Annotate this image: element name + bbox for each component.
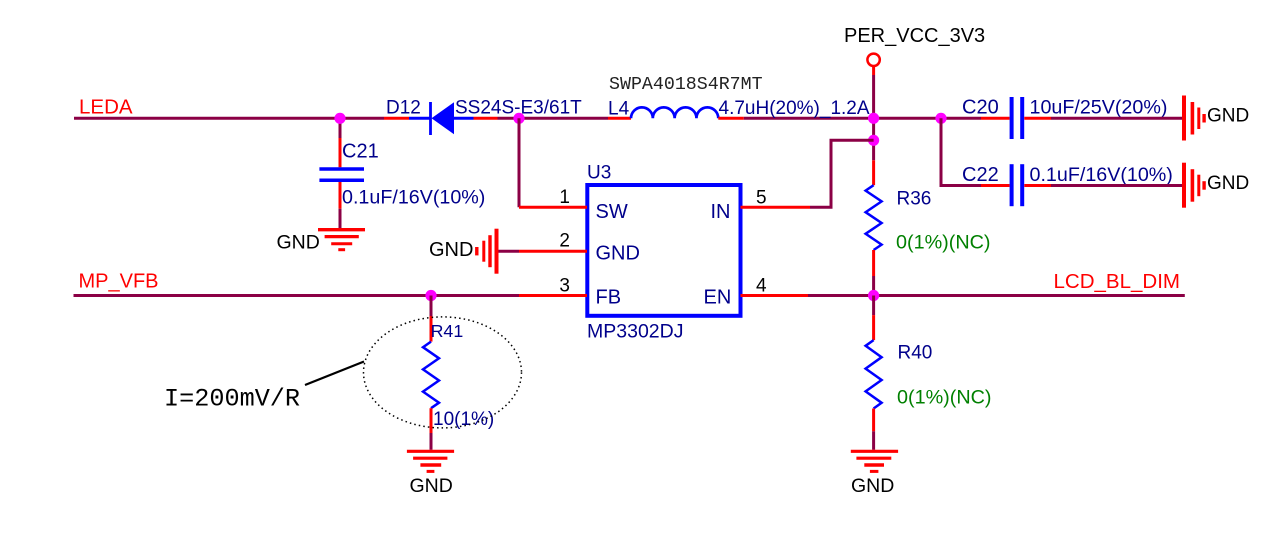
wire: power symbol down through main row to R36 bbox=[872, 75, 875, 160]
svg-text:GND: GND bbox=[429, 239, 473, 261]
inductor L4 bbox=[608, 107, 744, 118]
ref label R36 bbox=[897, 189, 932, 210]
value label 4.7uH(20%)_1.2A bbox=[719, 98, 870, 119]
svg-text:4: 4 bbox=[756, 276, 767, 297]
svg-text:U3: U3 bbox=[587, 163, 611, 184]
annotation ellipse around R41 bbox=[364, 317, 522, 428]
wire: EN row to LCD_BL_DIM bbox=[808, 294, 1185, 297]
svg-text:L4: L4 bbox=[608, 99, 630, 120]
svg-text:FB: FB bbox=[596, 287, 622, 309]
pin name IN bbox=[711, 201, 731, 223]
ground symbol at pin 2 bbox=[477, 229, 497, 274]
ref label C22 bbox=[962, 164, 999, 186]
pin name SW bbox=[596, 201, 628, 223]
pin name EN bbox=[704, 287, 732, 309]
annotation pointer line bbox=[305, 362, 364, 386]
diode D12 bbox=[384, 102, 498, 135]
value label 10(1%) for R41 bbox=[433, 409, 494, 430]
svg-text:GND: GND bbox=[851, 475, 894, 497]
value label 0(1%)(NC) for R36 bbox=[896, 232, 991, 254]
net label LCD_BL_DIM bbox=[1054, 270, 1180, 293]
svg-text:2: 2 bbox=[559, 231, 570, 252]
pin 3 FB stub bbox=[519, 294, 587, 297]
svg-text:R40: R40 bbox=[898, 343, 933, 364]
ref label D12 bbox=[386, 98, 421, 119]
svg-text:C22: C22 bbox=[962, 164, 999, 186]
svg-text:I=200mV/R: I=200mV/R bbox=[164, 385, 300, 414]
value label SS24S-E3/61T bbox=[455, 98, 582, 119]
svg-text:1: 1 bbox=[559, 187, 570, 208]
value label 0(1%)(NC) for R40 bbox=[897, 387, 992, 409]
pin 1 SW stub bbox=[519, 206, 587, 209]
ref label L4 bbox=[608, 99, 630, 120]
power symbol PER_VCC_3V3 bbox=[867, 54, 879, 75]
resistor R41 bbox=[423, 296, 439, 434]
wire: IN pin branch (corner) bbox=[810, 140, 874, 207]
wire: vertical from junction down to SW pin row bbox=[518, 118, 521, 207]
svg-text:LCD_BL_DIM: LCD_BL_DIM bbox=[1054, 270, 1180, 293]
svg-text:C21: C21 bbox=[342, 141, 379, 163]
pin number 2 bbox=[559, 231, 570, 252]
pin number 1 bbox=[559, 187, 570, 208]
svg-text:MP3302DJ: MP3302DJ bbox=[587, 321, 683, 343]
wire: L4 to C20 bbox=[744, 117, 981, 120]
wire: vertical from LEDA junction down to C21 bbox=[339, 118, 342, 138]
pin number 3 bbox=[559, 276, 570, 297]
value label 0.1uF/16V(10%) for C21 bbox=[342, 187, 485, 209]
label GND for C21 ground bbox=[277, 231, 320, 253]
value label 10uF/25V(20%) bbox=[1030, 97, 1168, 119]
svg-text:SW: SW bbox=[596, 201, 628, 223]
ref label R40 bbox=[898, 343, 933, 364]
svg-text:D12: D12 bbox=[386, 98, 421, 119]
label GND for R41 ground bbox=[410, 475, 453, 497]
ground symbol right of C20 bbox=[1184, 96, 1204, 141]
svg-text:GND: GND bbox=[1207, 173, 1249, 194]
svg-text:0(1%)(NC): 0(1%)(NC) bbox=[896, 232, 991, 254]
label GND at pin 2 ground bbox=[429, 239, 473, 261]
node junction at LEDA/C21 bbox=[334, 113, 345, 124]
wire: R40 to ground bbox=[872, 431, 875, 450]
value label MP3302DJ bbox=[587, 321, 683, 343]
svg-text:GND: GND bbox=[596, 243, 640, 265]
svg-text:0.1uF/16V(10%): 0.1uF/16V(10%) bbox=[1030, 164, 1173, 186]
svg-text:3: 3 bbox=[559, 276, 570, 297]
wire: ground symbol to pin 2 bbox=[499, 250, 520, 253]
svg-text:GND: GND bbox=[1207, 106, 1249, 127]
pin name FB bbox=[596, 287, 622, 309]
pin number 4 bbox=[756, 276, 767, 297]
net label LEDA bbox=[79, 95, 133, 118]
svg-text:5: 5 bbox=[756, 188, 767, 209]
svg-text:EN: EN bbox=[704, 287, 732, 309]
ground symbol below R41 bbox=[407, 451, 454, 471]
svg-text:GND: GND bbox=[410, 475, 453, 497]
svg-text:R41: R41 bbox=[431, 321, 464, 341]
label GND for C22 ground bbox=[1207, 173, 1249, 194]
wire: MP_VFB row to FB pin bbox=[74, 294, 520, 297]
capacitor C22 bbox=[981, 164, 1051, 206]
svg-text:IN: IN bbox=[711, 201, 731, 223]
wire: C20 to ground bbox=[1051, 117, 1182, 120]
wire: LEDA net horizontal top-left bbox=[74, 117, 384, 120]
svg-text:4.7uH(20%)_1.2A: 4.7uH(20%)_1.2A bbox=[719, 98, 870, 119]
label GND for R40 ground bbox=[851, 475, 894, 497]
node junction C22 branch bbox=[935, 113, 946, 124]
wire: C22 branch vertical and horizontal bbox=[941, 118, 981, 185]
value label 0.1uF/16V(10%) for C22 bbox=[1030, 164, 1173, 186]
capacitor C20 bbox=[981, 97, 1051, 139]
annotation text I=200mV/R bbox=[164, 385, 300, 414]
svg-text:10uF/25V(20%): 10uF/25V(20%) bbox=[1030, 97, 1168, 119]
svg-text:C20: C20 bbox=[962, 97, 999, 119]
ground symbol below C21 bbox=[318, 230, 365, 250]
ref label C20 bbox=[962, 97, 999, 119]
net label MP_VFB bbox=[79, 271, 159, 293]
node junction MP_VFB / R41 bbox=[425, 290, 436, 301]
pin 2 GND stub bbox=[519, 250, 587, 253]
wire: C21 to ground bbox=[339, 209, 342, 229]
ground symbol right of C22 bbox=[1184, 163, 1204, 208]
wire: R36 to EN row bbox=[872, 276, 875, 296]
svg-text:PER_VCC_3V3: PER_VCC_3V3 bbox=[844, 25, 985, 47]
part number label SWPA4018S4R7MT bbox=[609, 75, 763, 95]
ref label U3 bbox=[587, 163, 611, 184]
pin 5 IN stub bbox=[741, 206, 811, 209]
pin 4 EN stub bbox=[741, 294, 809, 297]
wire: R41 to ground bbox=[430, 433, 433, 450]
node junction EN / R36 / R40 bbox=[868, 290, 879, 301]
node junction main row / power bbox=[868, 113, 879, 124]
resistor R40 bbox=[866, 296, 882, 432]
net label PER_VCC_3V3 bbox=[844, 25, 985, 47]
node junction at D12 output / SW branch bbox=[513, 113, 524, 124]
resistor R36 bbox=[866, 160, 882, 276]
ref label R41 bbox=[431, 321, 464, 341]
svg-text:R36: R36 bbox=[897, 189, 932, 210]
pin name GND bbox=[596, 243, 640, 265]
capacitor C21 bbox=[319, 138, 364, 209]
ground symbol below R40 bbox=[851, 451, 898, 471]
wire: C22 to ground bbox=[1051, 184, 1182, 187]
svg-text:10(1%): 10(1%) bbox=[433, 409, 494, 430]
svg-text:SWPA4018S4R7MT: SWPA4018S4R7MT bbox=[609, 75, 763, 95]
svg-text:GND: GND bbox=[277, 231, 320, 253]
label GND for C20 ground bbox=[1207, 106, 1249, 127]
value label C21 bbox=[342, 141, 379, 163]
pin number 5 bbox=[756, 188, 767, 209]
node junction IN branch bbox=[868, 135, 879, 146]
svg-text:0(1%)(NC): 0(1%)(NC) bbox=[897, 387, 992, 409]
op-amp U3 body bbox=[587, 185, 740, 316]
svg-text:0.1uF/16V(10%): 0.1uF/16V(10%) bbox=[342, 187, 485, 209]
svg-text:MP_VFB: MP_VFB bbox=[79, 271, 159, 293]
wire: D12 to L4 bbox=[498, 117, 609, 120]
svg-text:LEDA: LEDA bbox=[79, 95, 133, 118]
